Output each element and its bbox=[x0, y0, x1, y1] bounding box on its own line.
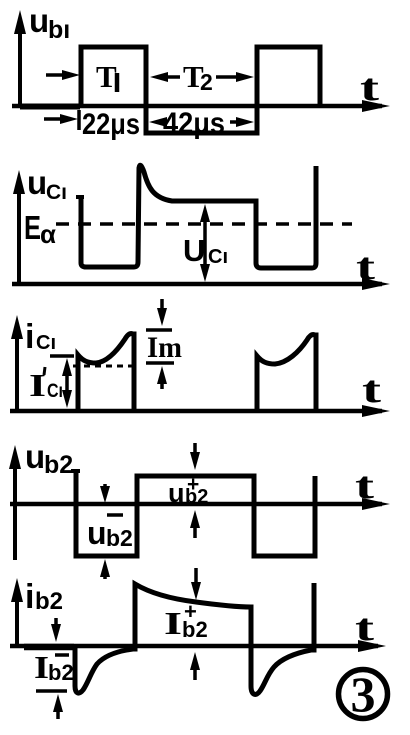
waveform u_b2 bbox=[71, 469, 80, 473]
y-axis plot3 bbox=[11, 315, 23, 412]
svg-text:t: t bbox=[356, 246, 376, 288]
svg-text:α: α bbox=[40, 219, 56, 249]
svg-text:42μs: 42μs bbox=[163, 107, 225, 140]
T2 left arrow bbox=[150, 72, 180, 82]
svg-text:Cı: Cı bbox=[47, 381, 63, 402]
svg-text:I: I bbox=[34, 649, 49, 685]
svg-text:b2: b2 bbox=[106, 525, 133, 551]
y-axis plot4 bbox=[9, 445, 21, 560]
I-b2 down arrow bbox=[51, 618, 61, 642]
axis label u_C1 bbox=[27, 164, 67, 204]
axis label u_b2 bbox=[25, 438, 73, 479]
Im down arrow bbox=[157, 299, 167, 326]
svg-text:2: 2 bbox=[200, 69, 213, 95]
I'C1 top reference line bbox=[50, 354, 74, 358]
waveform i_C1 pulse2 bbox=[257, 335, 316, 412]
i_b2 zero segment on axis bbox=[24, 644, 74, 651]
T1 arrow (points right to pulse edge) bbox=[46, 70, 80, 80]
svg-text:u: u bbox=[27, 164, 47, 201]
I-b2 bottom bar bbox=[36, 689, 67, 693]
x-axis plot1 bbox=[12, 100, 390, 112]
x-axis plot3 bbox=[10, 405, 390, 417]
waveform i_b2 bbox=[75, 583, 314, 694]
svg-text:b2: b2 bbox=[44, 451, 73, 479]
svg-text:b2: b2 bbox=[185, 486, 208, 508]
svg-text:i: i bbox=[25, 318, 34, 356]
svg-text:u: u bbox=[87, 515, 107, 551]
figure number circle 3 bbox=[339, 666, 388, 722]
42us right arrow bbox=[230, 117, 254, 127]
U_C1 label bbox=[183, 233, 228, 268]
x-axis plot2 bbox=[12, 278, 390, 290]
svg-text:bı: bı bbox=[48, 16, 70, 44]
u-b2 label bbox=[87, 515, 133, 551]
I-b2 up arrow bbox=[53, 694, 63, 719]
y-axis plot1 bbox=[14, 10, 26, 106]
svg-text:t: t bbox=[360, 67, 380, 109]
axis label u_b1 bbox=[29, 2, 70, 44]
svg-text:E: E bbox=[24, 209, 41, 246]
svg-text:Im: Im bbox=[147, 331, 182, 364]
svg-text:b2: b2 bbox=[48, 660, 74, 685]
Im label bbox=[147, 331, 182, 364]
svg-text:T: T bbox=[96, 59, 117, 94]
I+b2 label bbox=[164, 599, 208, 642]
u+b2 down arrow bbox=[190, 443, 200, 470]
I'C1 measure arrow bbox=[62, 358, 72, 408]
22us arrow bbox=[44, 110, 79, 130]
I-b2 label bbox=[34, 649, 74, 685]
u+b2 up arrow bbox=[190, 510, 200, 538]
Ea label bbox=[24, 209, 56, 249]
svg-text:Cı: Cı bbox=[46, 181, 67, 204]
T2 label bbox=[183, 59, 213, 95]
u+b2 label bbox=[168, 473, 208, 508]
Im top bar bbox=[146, 328, 172, 332]
u-b2 down arrow bbox=[100, 484, 110, 503]
I+b2 up arrow bbox=[190, 652, 200, 680]
y-axis plot5 bbox=[11, 578, 23, 648]
axis label i_b2 bbox=[25, 578, 63, 616]
dashed dip level plot3 bbox=[73, 365, 133, 368]
svg-text:i: i bbox=[25, 578, 34, 616]
svg-text:U: U bbox=[183, 233, 205, 268]
waveform u_b1 bbox=[81, 47, 320, 133]
waveform u_C1 bbox=[76, 195, 84, 199]
I'C1 label bbox=[29, 367, 63, 403]
U_C1 measure arrow bbox=[200, 204, 210, 282]
svg-text:u: u bbox=[29, 2, 49, 39]
42us left arrow bbox=[149, 117, 167, 127]
u-b2 up arrow bbox=[100, 559, 110, 579]
y-axis plot2 bbox=[13, 170, 25, 285]
svg-text:I: I bbox=[164, 605, 182, 641]
Im up arrow bbox=[157, 366, 167, 389]
x-axis plot5 bbox=[10, 640, 386, 652]
Im bottom bar bbox=[146, 361, 174, 365]
T2 right arrow bbox=[216, 72, 254, 82]
I+b2 down arrow bbox=[191, 568, 201, 600]
svg-text:22μs: 22μs bbox=[82, 108, 140, 141]
svg-text:t: t bbox=[355, 465, 375, 507]
u_b1 zero segment on axis bbox=[20, 104, 80, 110]
svg-text:t: t bbox=[362, 369, 382, 411]
svg-text:Cı: Cı bbox=[208, 246, 228, 268]
svg-text:b2: b2 bbox=[182, 617, 208, 642]
T1 label bbox=[96, 59, 117, 94]
svg-text:b2: b2 bbox=[35, 588, 63, 615]
svg-text:u: u bbox=[25, 438, 45, 475]
svg-text:t: t bbox=[355, 607, 375, 649]
waveform i_C1 pulse1 bbox=[78, 334, 134, 411]
axis label i_C1 bbox=[25, 318, 56, 356]
Ea dashed level line bbox=[56, 222, 352, 226]
x-axis plot4 bbox=[10, 498, 390, 510]
svg-text:u: u bbox=[168, 478, 185, 508]
svg-text:Cı: Cı bbox=[36, 332, 56, 354]
svg-text:3: 3 bbox=[351, 666, 376, 722]
